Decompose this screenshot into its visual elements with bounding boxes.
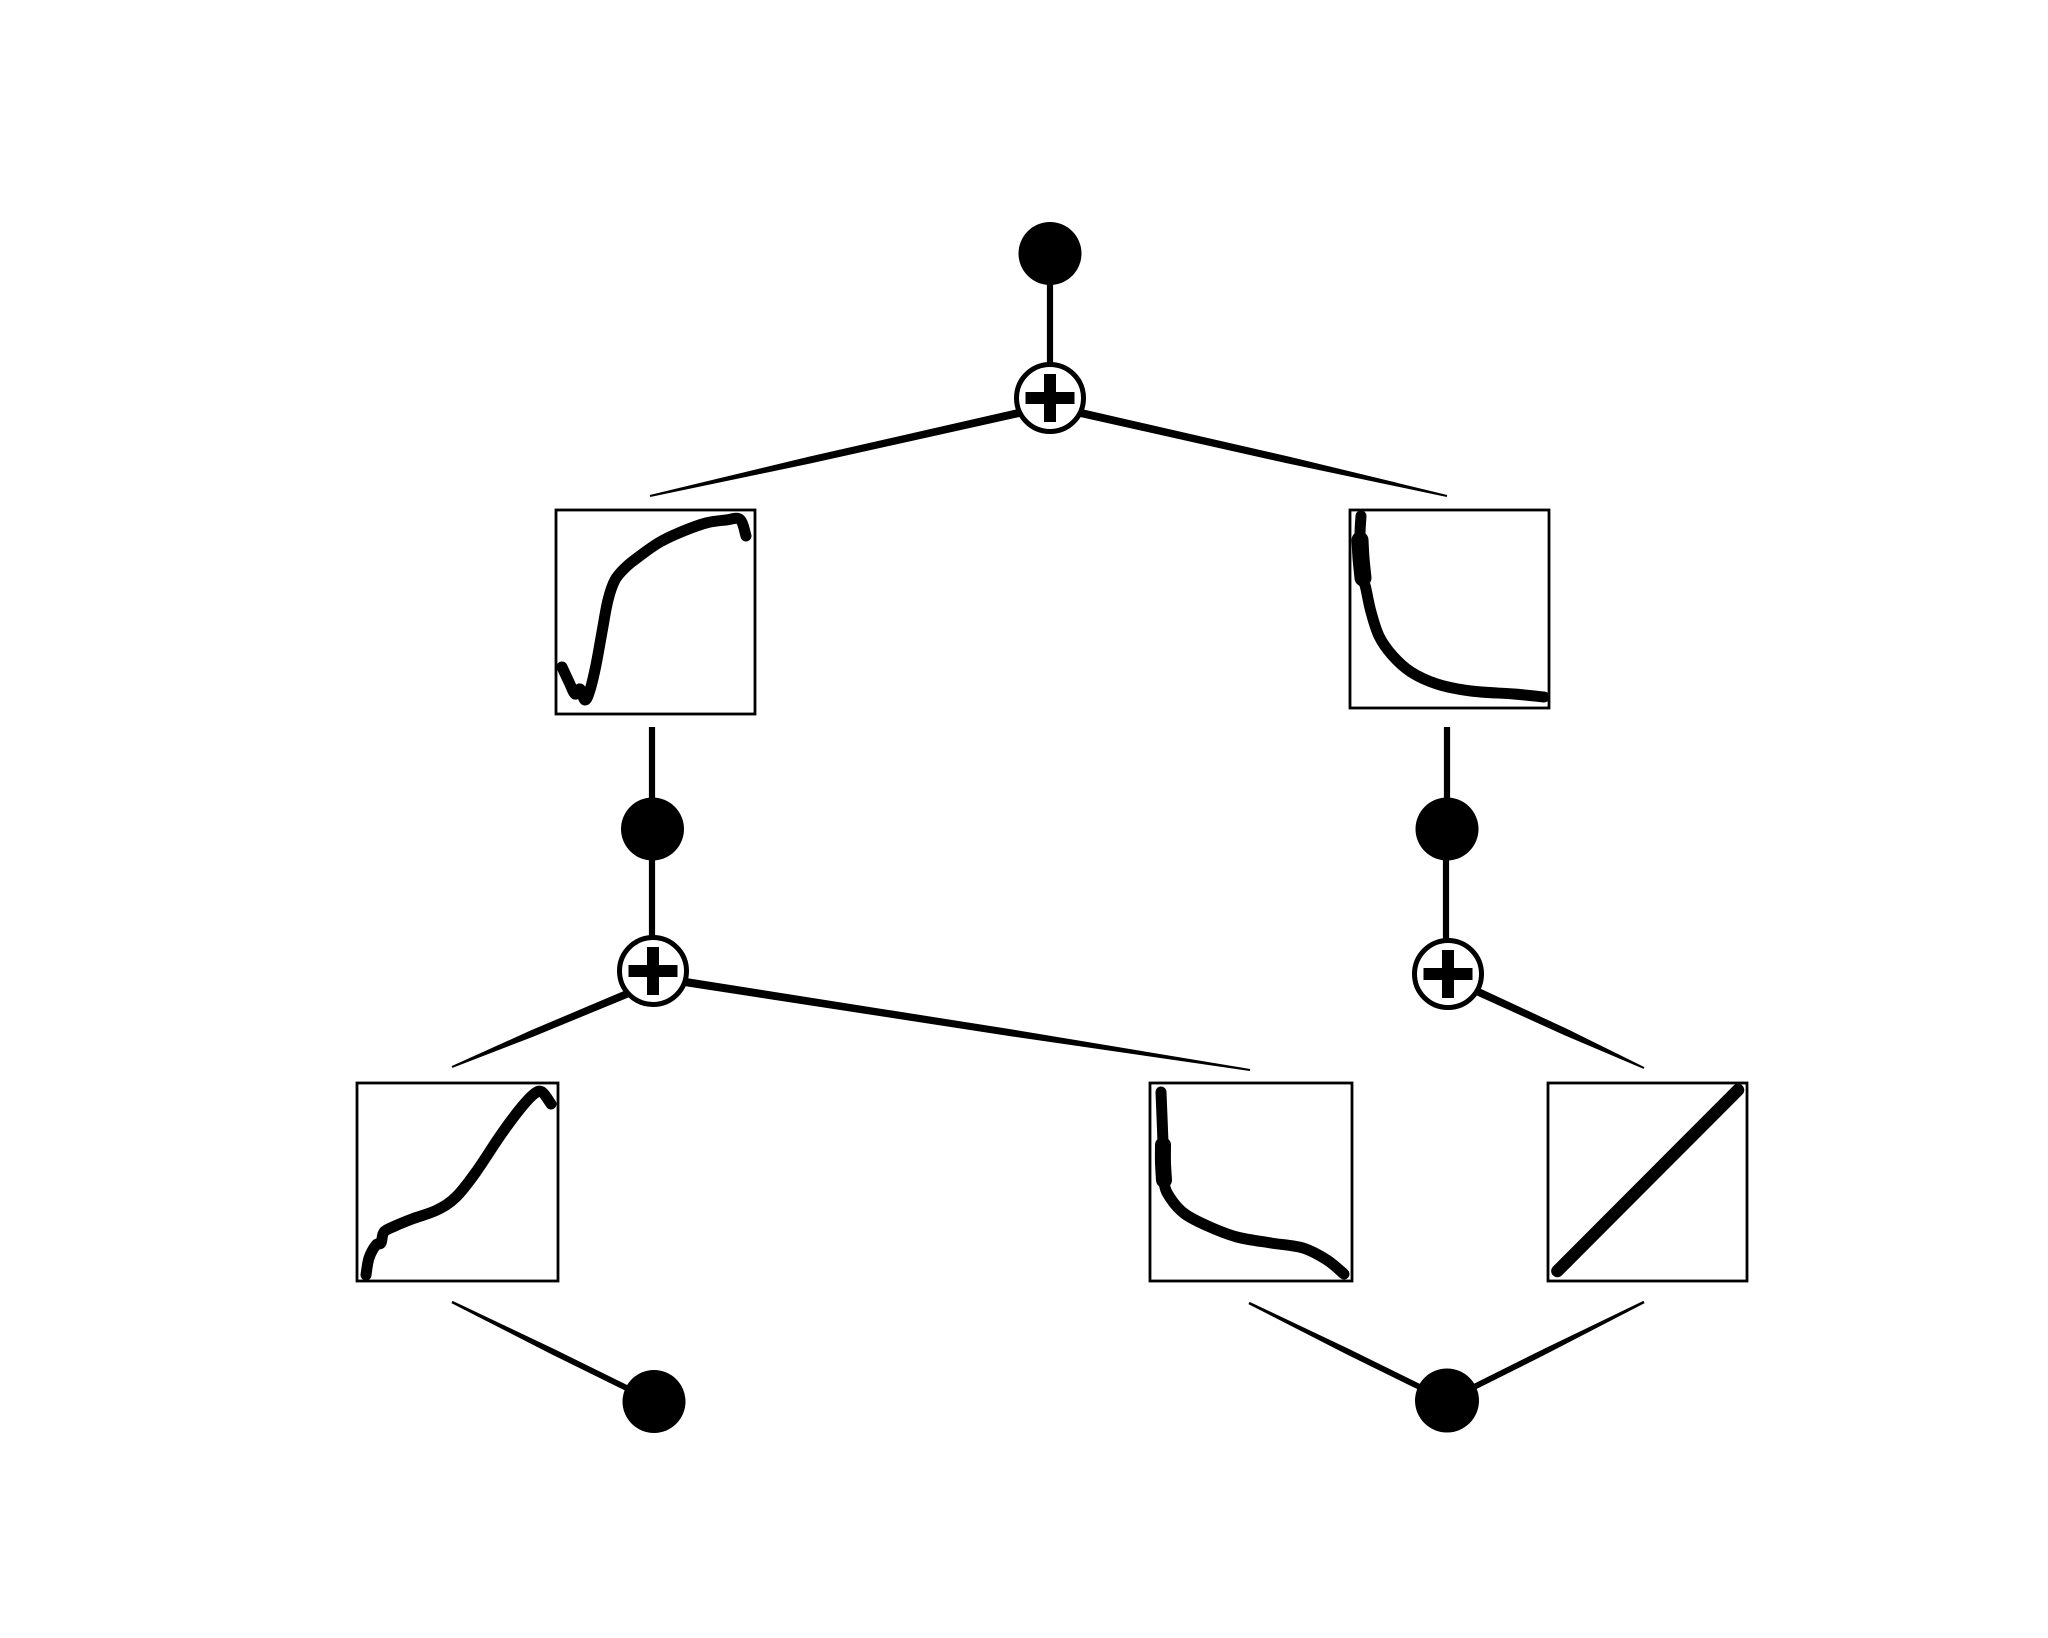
wire bottom-left input dot to bottom-left spline box — [451, 1301, 655, 1404]
wire left spline box to left hidden dot — [649, 727, 655, 808]
wire left hidden dot to left sum — [649, 850, 655, 945]
sum node top (+) — [1017, 365, 1084, 432]
node output dot (top) — [1019, 222, 1082, 285]
spline box phi1 (sigmoid-rise curve) — [556, 510, 755, 714]
sum node right (+) — [1415, 941, 1482, 1008]
node hidden dot right — [1416, 798, 1479, 861]
node input dot bottom-left — [623, 1370, 686, 1433]
wire top-sum to left spline box — [650, 402, 1051, 497]
wire left sum to bottom-left spline box — [452, 979, 655, 1068]
wire top-sum to right spline box — [1049, 402, 1447, 497]
wire right sum to bottom-right spline box — [1446, 974, 1644, 1069]
spline box phi2 (decay curve) — [1350, 510, 1549, 708]
wire right spline box to right hidden dot — [1444, 727, 1450, 808]
thick pen-pressure start of psi2 curve — [1163, 1145, 1164, 1180]
spline box psi1 (rising S curve) — [357, 1083, 558, 1281]
wire bottom-right input dot to bottom-right spline box — [1446, 1301, 1645, 1403]
node hidden dot left — [621, 798, 684, 861]
spline box psi3 (identity line) — [1548, 1083, 1747, 1281]
wire left sum to bottom-middle spline box — [652, 973, 1250, 1071]
spline box psi2 (decay S curve) — [1150, 1083, 1352, 1281]
wire top-dot to top-sum — [1047, 260, 1053, 380]
wire bottom-right input dot to bottom-middle spline box — [1248, 1302, 1448, 1403]
node input dot bottom-right — [1415, 1369, 1479, 1433]
sum node left (+) — [620, 938, 687, 1005]
thick pen-pressure start of phi2 curve — [1360, 540, 1363, 578]
wire right hidden dot to right sum — [1443, 850, 1449, 947]
